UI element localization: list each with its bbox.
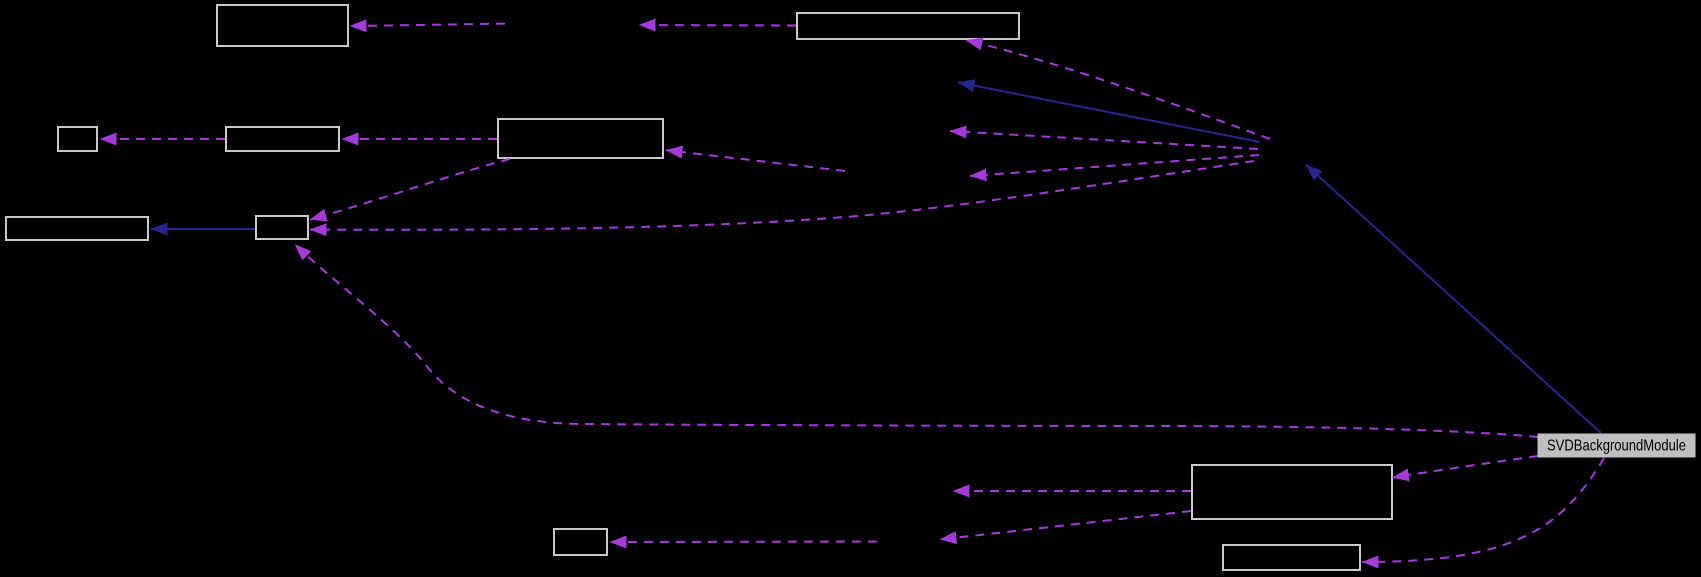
node F (left wide box) [6,217,148,240]
edge H to X7 (dashed) [940,511,1191,540]
edge H to X6 (dashed) [953,490,1191,492]
edge G to F (solid blue) [151,228,255,230]
edge X5 to E (dashed) [666,150,845,171]
edge SVD to I (dashed curve) [1362,458,1604,562]
edge hub to X5 (dashed) [970,155,1259,176]
edge E to G (dashed curve) [310,159,510,220]
edge D to C (dashed) [100,138,225,140]
node H (bottom-right large box) [1192,465,1392,519]
edge X7 to J (dashed) [610,541,877,544]
edge hub to X3 (solid blue) [958,82,1260,142]
node A (top-left box) [217,5,348,46]
edge E to D (dashed) [342,138,497,140]
edge SVD to G (long dashed curve) [295,245,1538,438]
edge X1 to A (dashed) [350,24,505,26]
node D (mid-left box) [226,127,339,151]
edge B to X1 (dashed) [639,24,796,27]
edge SVD to H (dashed) [1393,456,1539,478]
node SVDBackgroundModule (current class, grey) [1538,434,1695,457]
svg-text:SVDBackgroundModule: SVDBackgroundModule [1547,437,1686,454]
node B (top-middle box) [797,13,1019,39]
node G (small box) [256,216,308,239]
edge hub to G (dashed curve) [310,161,1254,230]
node I (bottom box) [1223,545,1360,570]
node C (small left box) [58,127,97,151]
node E (center box) [498,119,663,158]
edge hub to X4 (dashed) [950,131,1258,149]
edge SVD to hub (solid blue) [1306,165,1601,433]
node J (small bottom box) [554,529,607,555]
edge hub to B (dashed curve) [966,40,1270,139]
